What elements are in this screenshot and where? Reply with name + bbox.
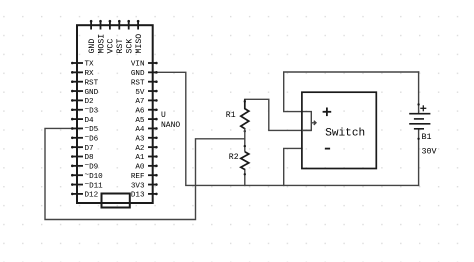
pin A2 (right) bbox=[148, 146, 158, 149]
pin ~D6 (left) bbox=[71, 137, 83, 140]
label switch minus bbox=[325, 148, 330, 150]
pin A1 (right) bbox=[148, 155, 158, 158]
svg-text:MISO: MISO bbox=[135, 34, 144, 54]
pin RX (left) bbox=[71, 71, 83, 74]
svg-text:VCC: VCC bbox=[107, 39, 116, 54]
svg-text:VIN: VIN bbox=[131, 61, 145, 69]
resistor R2 bbox=[241, 152, 249, 170]
wire D5 loop: ~D5 pin left-down-right to R1/R2 junction bbox=[45, 128, 245, 219]
pin GND (left) bbox=[71, 90, 83, 93]
pin ~D11 (left) bbox=[71, 183, 83, 186]
pin RST (right) bbox=[148, 80, 158, 83]
svg-text:~D9: ~D9 bbox=[85, 162, 99, 171]
svg-text:U: U bbox=[161, 111, 166, 120]
svg-text:5V: 5V bbox=[135, 89, 145, 97]
battery plus mark bbox=[420, 105, 426, 111]
wire battery bottom lead bbox=[418, 129, 420, 186]
wire battery top lead bbox=[418, 72, 420, 114]
pin TX (left) bbox=[71, 62, 83, 65]
pin A5 (right) bbox=[148, 118, 158, 121]
svg-text:A3: A3 bbox=[135, 136, 145, 144]
pin D4 (left) bbox=[71, 118, 83, 121]
svg-text:D13: D13 bbox=[131, 192, 145, 200]
svg-text:RX: RX bbox=[85, 70, 95, 78]
svg-text:A1: A1 bbox=[135, 154, 145, 162]
pin 3V3 (right) bbox=[148, 183, 158, 186]
pin ~D3 (left) bbox=[71, 108, 83, 111]
pin GND (right) bbox=[148, 71, 158, 74]
svg-text:30V: 30V bbox=[422, 146, 437, 156]
svg-text:NANO: NANO bbox=[161, 121, 180, 130]
svg-text:D8: D8 bbox=[85, 154, 95, 162]
svg-text:GND: GND bbox=[85, 89, 99, 97]
svg-text:MOSI: MOSI bbox=[97, 34, 106, 54]
svg-text:RST: RST bbox=[116, 39, 125, 54]
pin A0 (right) bbox=[148, 165, 158, 168]
svg-text:R1: R1 bbox=[226, 111, 236, 120]
pin A3 (right) bbox=[148, 137, 158, 140]
pin A7 (right) bbox=[148, 99, 158, 102]
pin ~D10 (left) bbox=[71, 174, 83, 177]
wire top rail: switch + drop to battery plus bbox=[284, 72, 419, 112]
pin VCC (top) bbox=[109, 20, 112, 30]
resistor R1 bbox=[241, 99, 249, 128]
wire switch minus to bottom rail bbox=[284, 148, 302, 185]
pin REF (right) bbox=[148, 174, 158, 177]
svg-text:A5: A5 bbox=[135, 117, 145, 125]
svg-text:TX: TX bbox=[85, 61, 95, 69]
sheet pin flag (input arrow) bbox=[302, 112, 316, 131]
svg-text:RST: RST bbox=[85, 79, 99, 87]
svg-text:REF: REF bbox=[131, 173, 145, 181]
svg-text:A0: A0 bbox=[135, 164, 145, 172]
pin ~D5 (left) bbox=[71, 127, 83, 130]
pin SCK (top) bbox=[127, 20, 130, 30]
svg-text:SCK: SCK bbox=[126, 39, 135, 54]
svg-text:D4: D4 bbox=[85, 117, 95, 125]
svg-text:A7: A7 bbox=[135, 98, 144, 106]
svg-text:~D10: ~D10 bbox=[85, 172, 104, 181]
svg-text:GND: GND bbox=[131, 70, 145, 78]
wire R1 top to switch + pin bbox=[245, 99, 311, 130]
pin 5V (right) bbox=[148, 90, 158, 93]
wire R1-R2 junction vertical bbox=[244, 129, 246, 152]
USB connector rectangle on U NANO bbox=[102, 194, 130, 208]
svg-text:GND: GND bbox=[88, 39, 97, 54]
svg-text:~D6: ~D6 bbox=[85, 134, 99, 143]
pin D2 (left) bbox=[71, 99, 83, 102]
svg-text:D12: D12 bbox=[85, 192, 99, 200]
pin MOSI (top) bbox=[99, 20, 102, 30]
svg-text:A6: A6 bbox=[135, 107, 145, 115]
svg-text:3V3: 3V3 bbox=[131, 182, 145, 190]
svg-text:D7: D7 bbox=[85, 145, 94, 153]
pin A4 (right) bbox=[148, 127, 158, 130]
switch sheet box bbox=[302, 92, 376, 168]
wire R2 bottom lead to rail bbox=[244, 170, 246, 186]
svg-text:RST: RST bbox=[131, 79, 145, 87]
svg-text:~D3: ~D3 bbox=[85, 106, 99, 115]
battery B1 bbox=[409, 114, 430, 129]
svg-text:B1: B1 bbox=[422, 132, 432, 142]
svg-text:A4: A4 bbox=[135, 126, 145, 134]
svg-text:R2: R2 bbox=[229, 153, 239, 162]
pin RST (top) bbox=[118, 20, 121, 30]
label switch plus bbox=[323, 108, 332, 117]
pin MISO (top) bbox=[137, 20, 140, 30]
pin D7 (left) bbox=[71, 146, 83, 149]
pin GND (top) bbox=[90, 20, 93, 30]
pin ~D9 (left) bbox=[71, 165, 83, 168]
svg-text:D2: D2 bbox=[85, 98, 95, 106]
svg-text:~D11: ~D11 bbox=[85, 181, 104, 190]
svg-text:Switch: Switch bbox=[325, 127, 365, 139]
svg-text:A2: A2 bbox=[135, 145, 145, 153]
IC U NANO (Arduino Nano) body bbox=[77, 25, 153, 203]
svg-text:~D5: ~D5 bbox=[85, 125, 99, 134]
wire GND rail: Nano GND pin to bottom rail to battery minus bbox=[157, 72, 419, 185]
pin D13 (right) bbox=[148, 193, 158, 196]
pin VIN (right) bbox=[148, 62, 158, 65]
pin D8 (left) bbox=[71, 155, 83, 158]
pin D12 (left) bbox=[71, 193, 83, 196]
pin A6 (right) bbox=[148, 108, 158, 111]
pin RST (left) bbox=[71, 80, 83, 83]
